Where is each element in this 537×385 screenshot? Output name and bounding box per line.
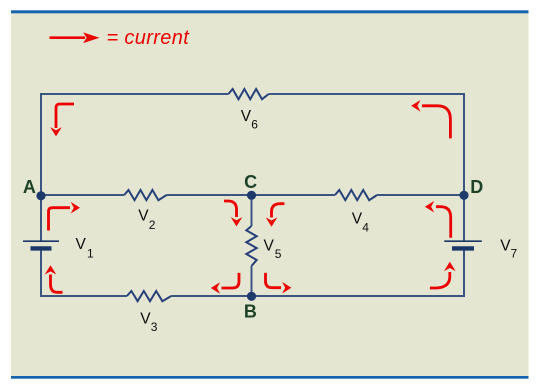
wire left vertical: battery V1 down to bottom wire [40,249,42,297]
current arrow below V1 head (up) [45,265,57,274]
label V2 [138,208,155,232]
wire V2 to node C [167,194,252,196]
svg-text:V: V [140,311,151,328]
current arrow below V7 head (up) [444,262,456,271]
current arrow left of B head (left) [211,282,220,294]
svg-text:4: 4 [362,221,369,235]
svg-text:6: 6 [251,118,258,132]
svg-text:V: V [138,208,149,225]
current arrow top-left head (down) [50,127,62,136]
resistor V6 [228,89,268,99]
node C junction dot [247,191,256,200]
svg-text:= current: = current [107,27,191,49]
wire right vertical: battery V7 down to bottom wire [463,249,465,297]
label V3 [140,311,158,334]
current arrow at node A head (right) [71,202,80,214]
current arrow top-right shaft (up then left) [422,106,450,139]
battery V7 plate long [444,240,482,242]
current arrow below V1 shaft (left then up) [51,275,63,293]
wire right vertical: node D down to battery V7 [463,195,465,241]
svg-text:V: V [241,108,252,125]
current arrow top-right head (left) [411,100,420,112]
resistor V3 [127,291,171,301]
wire bottom: left segment before V3 [40,295,127,297]
label V7 [500,237,517,260]
current arrow top-left shaft (left then down) [56,104,74,128]
wire top: right segment after V6 [269,93,464,95]
svg-text:V: V [352,211,363,228]
resistor V4 [335,190,377,200]
current arrow right of B shaft (down then right) [266,273,282,288]
wire V5 down to node B [251,266,253,297]
battery V7 plate short thick [452,246,474,250]
svg-text:B: B [244,302,257,322]
top border line [11,10,529,13]
current arrow below V7 shaft (right then up) [430,272,450,288]
node B junction dot [247,292,256,301]
svg-text:V: V [76,236,87,253]
current arrow at node D shaft (up then left) [436,207,451,238]
node A junction dot [36,191,45,200]
legend current arrow [50,32,100,43]
svg-text:C: C [244,172,257,192]
wire top: left segment before V6 [41,93,228,95]
svg-text:2: 2 [149,218,156,232]
current arrow right of C shaft (left then down) [272,204,285,218]
current arrow left of B shaft (down then left) [222,273,240,288]
current arrow right of B head (right) [282,282,291,294]
svg-text:3: 3 [151,320,158,334]
battery V1 plate long [23,240,59,242]
svg-text:D: D [470,177,483,197]
resistor V5 (vertical) [246,226,256,266]
wire A to V2 [41,194,124,196]
wire C down to V5 [251,195,253,226]
bottom border line [11,376,529,379]
battery V1 plate short thick [31,246,52,250]
resistor V2 [124,190,166,200]
wire right vertical: top wire down to node D [463,93,465,195]
label V5 [264,237,282,261]
current arrow left of C head (down) [231,217,243,226]
current arrow right of C head (down) [266,217,278,226]
svg-text:7: 7 [511,247,518,261]
label V6 [241,108,258,132]
current arrow at node D head (left) [425,201,434,213]
label V1 [76,236,95,260]
svg-text:1: 1 [87,246,94,260]
current arrow at node A shaft (up then right) [49,208,71,231]
current arrow left of C shaft (right then down) [224,201,237,217]
label V4 [352,211,369,235]
svg-text:5: 5 [275,247,282,261]
node D junction dot [459,191,468,200]
svg-text:V: V [264,237,275,254]
svg-text:A: A [23,177,36,197]
wire left vertical: top wire down to battery V1 [40,93,42,241]
wire bottom: right segment after V3 [171,295,465,297]
wire V4 to node D [377,194,464,196]
wire C to V4 [252,194,336,196]
